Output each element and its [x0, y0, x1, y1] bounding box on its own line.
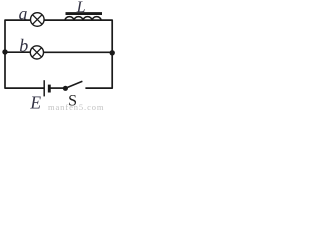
- battery E: short thick plate: [48, 85, 51, 93]
- svg-text:a: a: [19, 4, 28, 24]
- wire: top-left + left side + bottom-left run: [5, 20, 44, 88]
- wire: battery to switch pivot: [51, 87, 66, 89]
- svg-text:b: b: [19, 35, 28, 55]
- node: junction dot right (branch b to right wire): [110, 50, 115, 55]
- lamp a: circle: [31, 13, 45, 27]
- wire: top run from lamp a through inductor, right side, bottom-right run: [44, 20, 112, 88]
- lamp a: cross: [33, 15, 43, 25]
- svg-text:S: S: [68, 92, 77, 109]
- svg-text:E: E: [29, 92, 41, 111]
- inductor L: core bar: [66, 12, 103, 15]
- switch S: pivot dot: [63, 86, 68, 91]
- wire: middle branch (lamp b) left segment: [5, 51, 30, 53]
- node: junction dot left (branch b to left wire): [2, 49, 7, 54]
- switch S: blade: [66, 81, 82, 88]
- svg-text:L: L: [76, 0, 86, 16]
- wire: middle branch (lamp b) right segment: [44, 51, 113, 53]
- inductor L: coil (4 humps): [65, 17, 101, 21]
- lamp b: circle: [30, 46, 43, 59]
- lamp b: cross: [32, 48, 41, 57]
- battery E: long plate: [43, 80, 45, 96]
